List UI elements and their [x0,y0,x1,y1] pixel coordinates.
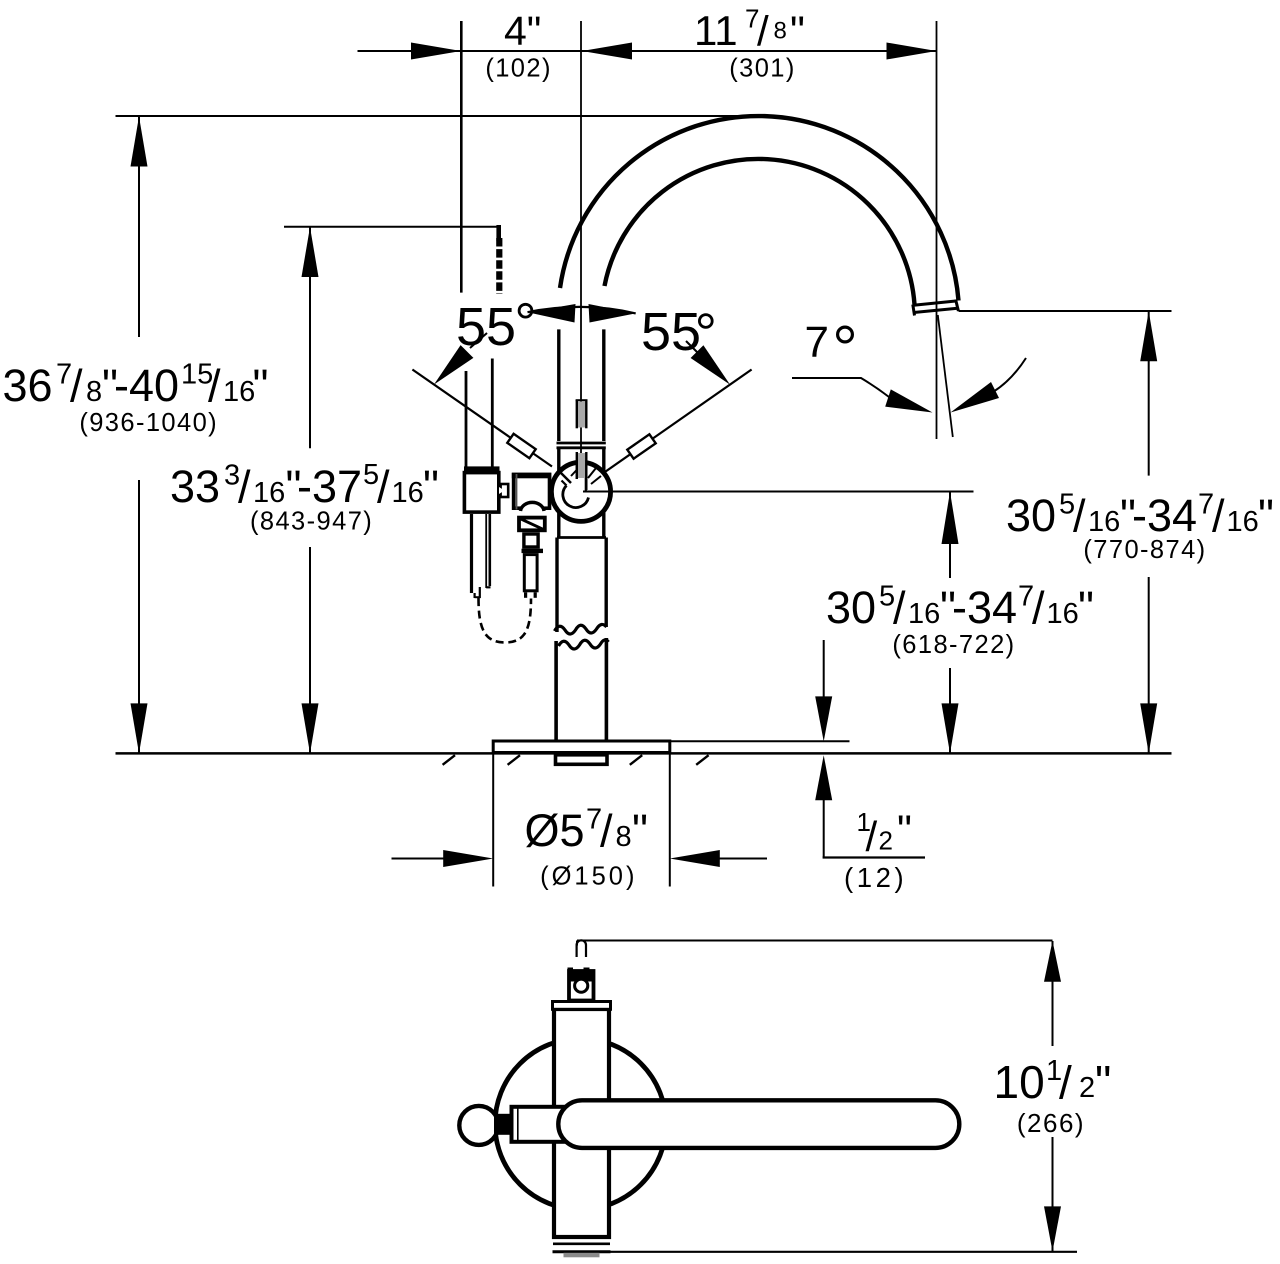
top view bottom leader line [610,1251,1078,1253]
svg-text:/: / [1032,583,1045,634]
svg-text:/: / [600,806,613,857]
svg-text:16: 16 [1088,506,1120,538]
svg-text:7: 7 [805,318,829,367]
arrow at x=936.5 pointing right (11 7/8 dim) [887,43,937,60]
floor hatch ticks [443,755,709,765]
diverter dome [521,502,545,511]
svg-text:": " [253,360,269,411]
arrow at x=461 pointing right (4in dim) [411,43,461,60]
svg-text:8: 8 [774,18,787,45]
dimension line x=139 (936-1040) [131,117,148,754]
spout inner arc [605,159,915,305]
top view hand shower knob [459,1106,498,1145]
label 1/2 inch [857,806,912,860]
svg-text:16: 16 [1227,506,1259,538]
svg-text:2: 2 [879,826,893,856]
label 10 1/2 inch [994,1055,1112,1109]
pivot circle inner detail [560,463,613,508]
svg-text:": " [423,461,439,512]
svg-text:55: 55 [456,297,516,357]
7deg label [805,318,853,367]
top view connector square with circle [568,968,594,1001]
diverter collar [522,549,544,553]
55deg label right [641,302,712,362]
diverter body [512,473,552,510]
label (770-874) [1083,536,1206,564]
break wavy line lower [559,640,609,649]
svg-text:/: / [208,361,221,412]
svg-text:": " [1095,1056,1111,1108]
reference line y=226.7 (holder top) [284,225,499,241]
under floor stub [556,755,608,765]
top view holder bracket [512,1107,573,1142]
centerline x=581 (faucet column axis) [580,21,582,491]
svg-text:10: 10 [994,1056,1045,1108]
top reference line y=116 (spout top) [116,115,757,117]
cartridge slot upper [576,400,588,428]
label 30 5/16 - 34 7/16 inch (right) [1006,489,1274,542]
label 30 5/16 - 34 7/16 inch (middle) [826,581,1094,634]
valve body bottom joint y=537.5 [557,536,606,539]
svg-text:33: 33 [170,461,220,512]
label 33 3/16 - 37 5/16 inch [170,459,439,513]
label diameter 5 7/8 inch [525,804,648,857]
svg-text:2: 2 [1079,1072,1095,1104]
column joint rings y=443/447.5 [557,443,606,448]
spout outer arc [560,116,959,300]
lever 55deg right diagonal [592,370,752,482]
top view knob connector [494,1114,511,1135]
svg-text:16: 16 [223,376,255,408]
lever 55deg left diagonal [412,370,552,467]
hand shower head [472,514,491,598]
top view leader line y=940.5 [577,941,1053,946]
diverter stem upper [524,534,538,547]
label (301) [729,55,796,83]
svg-text:/: / [866,813,878,860]
holder block [464,473,498,512]
svg-text:4": 4" [504,8,541,54]
svg-text:-34: -34 [952,582,1017,633]
hand shower holder prongs [466,359,492,467]
svg-text:/: / [377,462,390,513]
diameter extension lines [493,752,670,887]
label 36 7/8 - 40 15/16 inch [3,359,269,412]
valve body side edges [559,448,604,538]
label 4 inch [504,8,541,54]
column lower edges below break [556,638,606,740]
svg-text:8: 8 [616,821,632,853]
label (102) [485,55,552,83]
svg-text:/: / [1059,1057,1072,1109]
svg-text:8: 8 [86,376,102,408]
label (diameter 150) [540,863,637,891]
svg-text:Ø5: Ø5 [525,805,585,856]
hand shower hose (dashed) [479,598,532,643]
svg-text:16: 16 [908,598,940,630]
diverter valve box with diagonal [519,518,545,531]
svg-text:(770-874): (770-874) [1083,536,1206,564]
svg-text:": " [790,7,805,54]
svg-text:(843-947): (843-947) [250,508,373,536]
column lower edges above break [557,538,606,633]
top dimension line y=51 [358,50,937,52]
svg-text:30: 30 [826,582,876,633]
svg-text:16: 16 [1047,598,1079,630]
svg-text:(618-722): (618-722) [892,631,1015,659]
center height reference line y=491.5 [583,491,974,493]
svg-text:30: 30 [1006,490,1056,541]
floor line [116,752,1172,755]
extension line x=461.3 (hand shower holder) [460,21,463,293]
label 11 7/8 inch [694,4,805,55]
label (843-947) [250,508,373,536]
lever knob marker right [627,434,655,458]
svg-text:/: / [893,583,906,634]
top view lever handle pill [558,1100,959,1148]
svg-text:/: / [70,361,83,412]
svg-text:11: 11 [694,7,738,54]
svg-text:/: / [1212,491,1225,542]
dimension line x=1148.7 (770-874) [1140,311,1157,753]
label (936-1040) [79,409,218,437]
svg-text:(12): (12) [844,862,907,893]
base plate [493,741,670,753]
7deg leader line and left arrow [792,378,933,413]
holder top black bar [464,466,500,472]
lever swing arc with arrowheads [528,304,636,323]
faucet column upper edges [559,329,604,441]
55deg label left [456,297,532,357]
svg-text:/: / [238,462,251,513]
top view dimension line x=1052.5 (266) [1044,941,1061,1252]
half inch dimension arrows [815,640,925,858]
svg-text:(266): (266) [1017,1108,1085,1138]
svg-text:(102): (102) [485,55,552,83]
svg-text:/: / [1073,491,1086,542]
top view column body [554,1009,609,1237]
55deg right leader arrow [686,341,730,385]
top view column bottom stack [552,1237,611,1257]
svg-text:-34: -34 [1132,490,1197,541]
svg-text:36: 36 [3,360,53,411]
svg-text:(Ø150): (Ø150) [540,863,637,891]
diameter dimension arrows y=858.5 [392,850,768,867]
svg-text:(936-1040): (936-1040) [79,409,218,437]
svg-text:-37: -37 [297,461,362,512]
55deg left leader arrow [434,333,487,385]
break wavy line upper [555,624,607,634]
label (618-722) [892,631,1015,659]
label (266) [1017,1108,1085,1138]
outlet height reference line y=311 [959,310,1172,312]
plate top reference line to 1/2in dim [670,740,850,742]
svg-text:/: / [757,8,769,55]
dimension line x=310 (843-947) [302,227,319,753]
svg-text:(301): (301) [729,55,796,83]
svg-text:55: 55 [641,302,701,362]
holder pin dashed thick line [496,238,502,294]
7deg tilted flow line [938,315,953,437]
top view top plate [553,1002,611,1010]
cartridge slot lower (into circle) [577,452,587,490]
spout outlet cap (aerator) [913,300,959,316]
svg-text:": " [1078,582,1094,633]
svg-text:16: 16 [253,477,285,509]
label (12) [844,862,907,893]
top view: outlet tip mark [577,940,586,957]
dimension line x=950 (618-722) [942,492,959,754]
lever knob marker left [507,434,535,458]
holder side tab [499,484,508,497]
extension line x=936.5 (spout outlet) [936,21,938,439]
svg-text:16: 16 [392,477,424,509]
svg-text:": " [632,805,648,856]
arrow at x=582 pointing left (11 7/8 dim) [582,43,632,60]
7deg right arrow and arc [951,358,1027,413]
diverter stem tip legs [524,592,537,598]
svg-text:": " [1258,490,1274,541]
top view base circle [495,1039,666,1210]
diverter stem lower [524,555,537,591]
pivot circle [551,462,610,521]
svg-text:": " [897,806,912,853]
svg-text:-40: -40 [114,360,179,411]
